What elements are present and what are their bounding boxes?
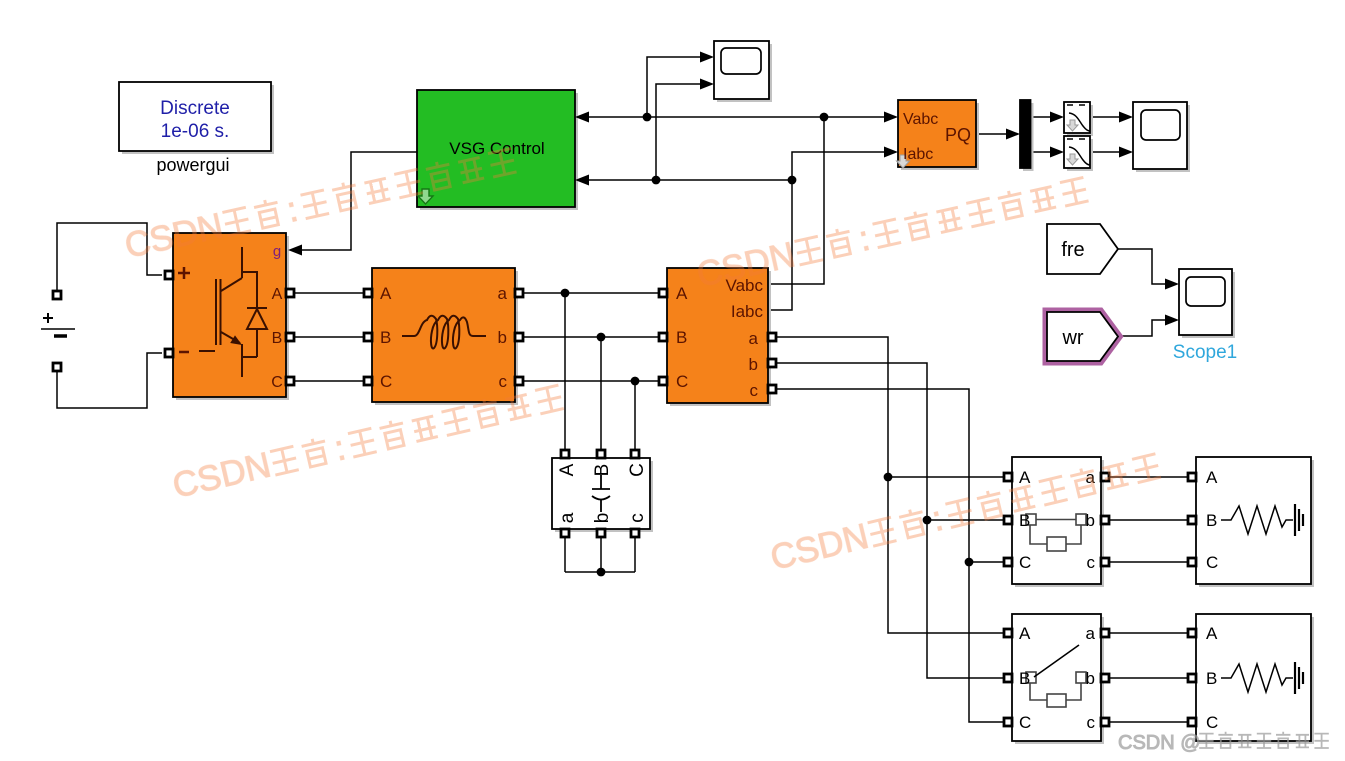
svg-text:c: c bbox=[750, 381, 759, 400]
svg-text:b: b bbox=[749, 355, 758, 374]
svg-text:a: a bbox=[557, 512, 578, 523]
svg-text:CSDN @: CSDN @ bbox=[1118, 732, 1201, 754]
svg-text:powergui: powergui bbox=[156, 155, 229, 175]
svg-text:A: A bbox=[1019, 624, 1031, 643]
svg-text:wr: wr bbox=[1061, 327, 1083, 349]
svg-text:g: g bbox=[273, 243, 281, 260]
svg-text:B: B bbox=[676, 328, 687, 347]
svg-text:C: C bbox=[271, 374, 283, 391]
svg-text:C: C bbox=[380, 372, 392, 391]
svg-text:c: c bbox=[1087, 713, 1096, 732]
svg-text:B: B bbox=[1206, 669, 1217, 688]
svg-text:C: C bbox=[627, 463, 648, 477]
svg-text:c: c bbox=[1087, 553, 1096, 572]
svg-text:b: b bbox=[592, 513, 613, 524]
svg-text:A: A bbox=[557, 463, 578, 476]
svg-text:a: a bbox=[749, 329, 759, 348]
svg-text:B: B bbox=[380, 328, 391, 347]
svg-text:A: A bbox=[1206, 468, 1218, 487]
svg-text:VSG Control: VSG Control bbox=[449, 139, 544, 158]
svg-text:B: B bbox=[272, 330, 283, 347]
svg-text:A: A bbox=[676, 284, 688, 303]
svg-text:a: a bbox=[1086, 624, 1096, 643]
svg-text:C: C bbox=[1019, 713, 1031, 732]
svg-text:b: b bbox=[1086, 669, 1095, 688]
svg-text:A: A bbox=[380, 284, 392, 303]
svg-text:B: B bbox=[1206, 511, 1217, 530]
svg-text:A: A bbox=[1206, 624, 1218, 643]
svg-text:PQ: PQ bbox=[945, 125, 971, 145]
svg-text:c: c bbox=[499, 372, 508, 391]
svg-text:A: A bbox=[272, 286, 283, 303]
svg-text:C: C bbox=[676, 372, 688, 391]
svg-text:Discrete: Discrete bbox=[160, 98, 230, 119]
svg-text:1e-06 s.: 1e-06 s. bbox=[161, 121, 230, 142]
svg-text:b: b bbox=[498, 328, 507, 347]
svg-text:C: C bbox=[1019, 553, 1031, 572]
svg-text:B: B bbox=[592, 464, 613, 477]
svg-text:a: a bbox=[498, 284, 508, 303]
svg-text:c: c bbox=[627, 513, 648, 523]
svg-text:B: B bbox=[1019, 669, 1030, 688]
svg-text:A: A bbox=[1019, 468, 1031, 487]
svg-text:Iabc: Iabc bbox=[731, 302, 764, 321]
svg-text:Scope1: Scope1 bbox=[1173, 342, 1237, 363]
svg-text:Vabc: Vabc bbox=[903, 111, 938, 128]
svg-text:C: C bbox=[1206, 553, 1218, 572]
svg-text:B: B bbox=[1019, 511, 1030, 530]
svg-text:C: C bbox=[1206, 713, 1218, 732]
svg-text:fre: fre bbox=[1061, 239, 1084, 261]
svg-text:Iabc: Iabc bbox=[903, 146, 933, 163]
svg-text:b: b bbox=[1086, 511, 1095, 530]
